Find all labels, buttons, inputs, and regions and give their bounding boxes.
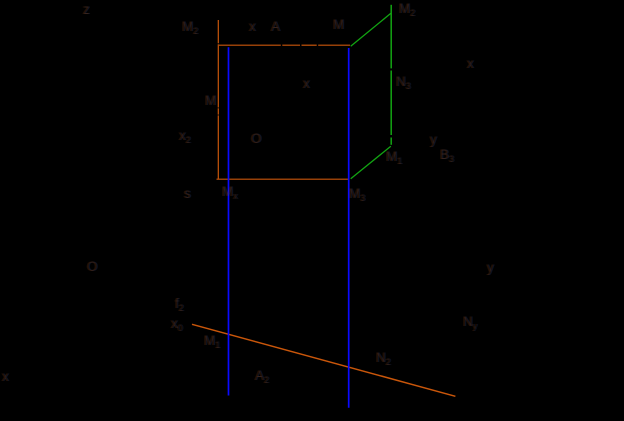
label M at top-right corner xyxy=(333,18,344,32)
label x0 xyxy=(171,317,183,331)
label A above top edge xyxy=(271,20,280,34)
label Mz on orange vertical xyxy=(205,94,216,108)
wire: orange horizontal top dash 3 xyxy=(302,44,317,46)
label x bottom-left xyxy=(2,370,9,384)
label O origin xyxy=(87,260,98,274)
wire: orange vertical segment bottom xyxy=(217,115,219,179)
line: green diagonal lower xyxy=(351,146,391,179)
label M1 on diagonal xyxy=(204,334,220,348)
label x inside square xyxy=(303,77,310,91)
label N2 on diagonal xyxy=(376,351,391,365)
label Mx at bottom-left corner xyxy=(222,185,238,199)
wire: orange vertical segment main xyxy=(217,44,219,107)
line: orange diagonal bottom xyxy=(192,324,455,396)
z-axis orange vertical (dash-dot) xyxy=(217,20,351,179)
wire: orange horizontal bottom xyxy=(217,178,350,180)
label M2 top of green xyxy=(399,2,415,16)
label O inside square xyxy=(251,132,262,146)
label B3 right of green xyxy=(440,148,454,162)
label M3 at bottom-right corner xyxy=(349,187,365,201)
label f2 xyxy=(175,297,184,311)
label Cx right xyxy=(463,315,477,329)
label N3 on green vertical xyxy=(396,75,411,89)
wire: orange vertical segment top xyxy=(217,20,219,43)
label x right side xyxy=(467,57,474,71)
label z axis xyxy=(83,3,90,17)
wire: orange horizontal top dash 1 xyxy=(219,44,281,46)
label y right of green xyxy=(430,133,437,147)
label M1 below green vertical xyxy=(386,150,402,164)
line: blue vertical 1 xyxy=(228,47,230,395)
label M2 top-left xyxy=(182,20,198,34)
label x above top edge xyxy=(249,20,256,34)
label y axis right xyxy=(487,261,494,275)
green vertical (dashed) xyxy=(390,5,392,145)
label s left of bottom edge xyxy=(184,187,191,201)
wire: orange horizontal top dash 4 xyxy=(318,44,350,46)
label A2 bottom xyxy=(255,369,269,383)
line: green diagonal upper xyxy=(351,13,392,46)
line: blue vertical 2 xyxy=(348,48,350,408)
wire: orange vertical dot dash xyxy=(217,108,219,114)
label x2 left of square xyxy=(179,129,191,143)
wire: orange horizontal top dash 2 xyxy=(282,44,300,46)
